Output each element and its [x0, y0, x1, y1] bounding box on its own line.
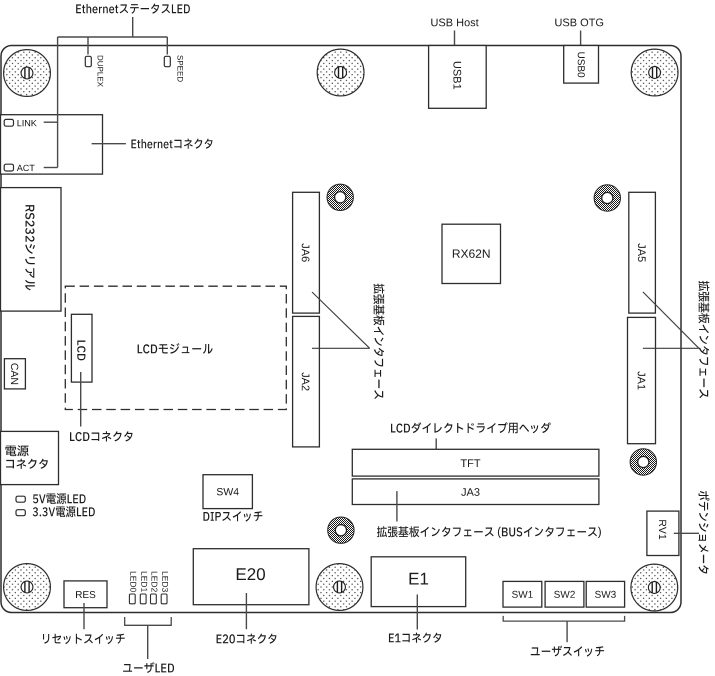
- bracket tick to SPEED LED: [166, 37, 168, 55]
- label SW2: [554, 591, 575, 598]
- leader line USB Host to USB1: [454, 31, 456, 53]
- label 拡張基板インタフェース (right): [698, 281, 709, 398]
- label USB Host: [431, 19, 478, 27]
- LED LED3: [161, 594, 167, 604]
- connector LCD: [71, 314, 92, 382]
- leader line Ethernet connector: [92, 143, 126, 145]
- label JA6: [302, 243, 310, 261]
- pad hole near JA3: [328, 517, 354, 543]
- leader line TFT header: [435, 438, 437, 462]
- pad hole near JA5: [594, 185, 620, 211]
- label LED2: [152, 572, 158, 592]
- bracket line for Ethernet status LEDs: [58, 36, 168, 38]
- label LED0: [130, 572, 136, 592]
- label ユーザLED: [123, 662, 174, 673]
- leader stem from EthernetステータスLED label: [132, 17, 134, 37]
- LED 3.3V power: [16, 510, 25, 516]
- connector JA1: [628, 317, 656, 443]
- leader line LINK: [44, 121, 58, 123]
- leader diagonal JA6: [312, 292, 370, 348]
- mounting hole top-right: [631, 49, 678, 96]
- mounting hole bottom-left: [4, 564, 51, 611]
- leader stem user LEDs: [147, 625, 149, 659]
- switch SW4: [203, 475, 252, 509]
- LED ACT: [4, 164, 13, 171]
- LED LED2: [151, 594, 157, 604]
- leader line E1: [416, 595, 418, 630]
- leader line USB OTG to USB0: [580, 31, 582, 53]
- leader line E20: [245, 593, 247, 629]
- label RX62N: [453, 249, 490, 258]
- connector TFT: [352, 449, 599, 476]
- label JA2: [302, 372, 310, 390]
- label リセットスイッチ: [43, 634, 125, 644]
- connector E20: [193, 549, 309, 605]
- bracket user switches: [503, 616, 624, 621]
- label E20: [237, 568, 265, 580]
- connector JA5: [629, 192, 656, 313]
- power connector: [1, 431, 59, 484]
- label SW3: [595, 591, 616, 598]
- label ユーザスイッチ: [531, 646, 604, 657]
- connector JA2: [293, 316, 320, 447]
- pad hole near JA6: [327, 184, 353, 210]
- mounting hole bottom-middle: [316, 564, 363, 611]
- MCU RX62N: [442, 224, 501, 283]
- switch SW2: [545, 581, 584, 607]
- label 3.3V電源LED: [33, 506, 95, 517]
- LCD module outline (dashed): [65, 286, 286, 409]
- leader line ACT: [44, 167, 58, 169]
- label RES: [76, 591, 95, 598]
- leader line LCD connector: [80, 372, 82, 427]
- label JA1: [638, 371, 646, 389]
- LED 5V power: [16, 496, 25, 502]
- label USB OTG: [555, 19, 603, 27]
- label 電源: [5, 445, 28, 456]
- label JA5: [638, 243, 646, 261]
- pad hole below JA1: [630, 449, 656, 475]
- leader line JA2: [312, 347, 370, 349]
- LED LED0: [129, 594, 135, 604]
- leader line JA3: [396, 491, 398, 521]
- label SW1: [512, 591, 533, 598]
- mounting hole top-middle: [317, 49, 364, 96]
- switch SW1: [503, 581, 542, 607]
- label TFT: [461, 459, 481, 467]
- label ポテンショメータ: [698, 491, 709, 574]
- label SW4: [217, 488, 239, 495]
- label USB1: [453, 62, 461, 89]
- label Ethernetコネクタ: [131, 139, 212, 149]
- leader line RV1: [674, 532, 699, 534]
- mounting hole top-left: [4, 50, 51, 97]
- label JA3: [461, 488, 479, 496]
- label LCDモジュール: [138, 343, 213, 354]
- label E20コネクタ: [217, 634, 277, 644]
- LED LED1: [140, 594, 146, 604]
- LED DUPLEX: [85, 56, 91, 66]
- label 5V電源LED: [33, 493, 86, 504]
- bracket user LEDs: [125, 617, 172, 625]
- connector JA6: [293, 192, 320, 313]
- LED SPEED: [164, 56, 170, 66]
- label LED1: [141, 572, 147, 592]
- connector USB1: [429, 46, 487, 109]
- connector USB0: [564, 46, 599, 84]
- label LCD: [77, 341, 85, 361]
- bracket drop to LINK/ACT: [57, 37, 59, 168]
- label コネクタ: [6, 459, 48, 469]
- mounting hole bottom-right: [631, 564, 678, 611]
- label LED3: [162, 572, 168, 592]
- label E1: [410, 573, 429, 585]
- Ethernet connector: [1, 115, 103, 174]
- leader diagonal JA5: [643, 292, 699, 348]
- board outline: [1, 46, 681, 613]
- leader stem user switches: [566, 621, 568, 642]
- label DIPスイッチ: [203, 511, 262, 521]
- label RS232シリアル: [25, 205, 35, 290]
- label E1コネクタ: [389, 633, 441, 643]
- leader line JA1: [643, 347, 699, 349]
- bracket tick to DUPLEX LED: [87, 37, 89, 55]
- label LCDダイレクトドライブ用ヘッダ: [391, 422, 551, 433]
- leader line RES: [83, 603, 85, 629]
- label LINK: [18, 120, 37, 126]
- connector CAN: [4, 359, 25, 389]
- connector JA3: [352, 479, 599, 505]
- label CAN: [11, 363, 18, 384]
- label SPEED: [177, 55, 183, 81]
- label LCDコネクタ: [70, 431, 133, 441]
- LED LINK: [4, 119, 13, 126]
- switch RES: [64, 581, 107, 608]
- label ACT: [17, 165, 35, 171]
- connector E1: [371, 557, 466, 607]
- label USB0: [578, 52, 585, 77]
- label DUPLEX: [98, 56, 104, 87]
- label RV1: [659, 520, 666, 539]
- switch SW3: [586, 581, 624, 607]
- connector RS232: [1, 188, 62, 312]
- potentiometer RV1: [647, 511, 679, 555]
- label EthernetステータスLED: [76, 4, 190, 14]
- label 拡張基板インタフェース (BUSインタフェース): [377, 526, 601, 538]
- label 拡張基板インタフェース (left): [373, 284, 384, 399]
